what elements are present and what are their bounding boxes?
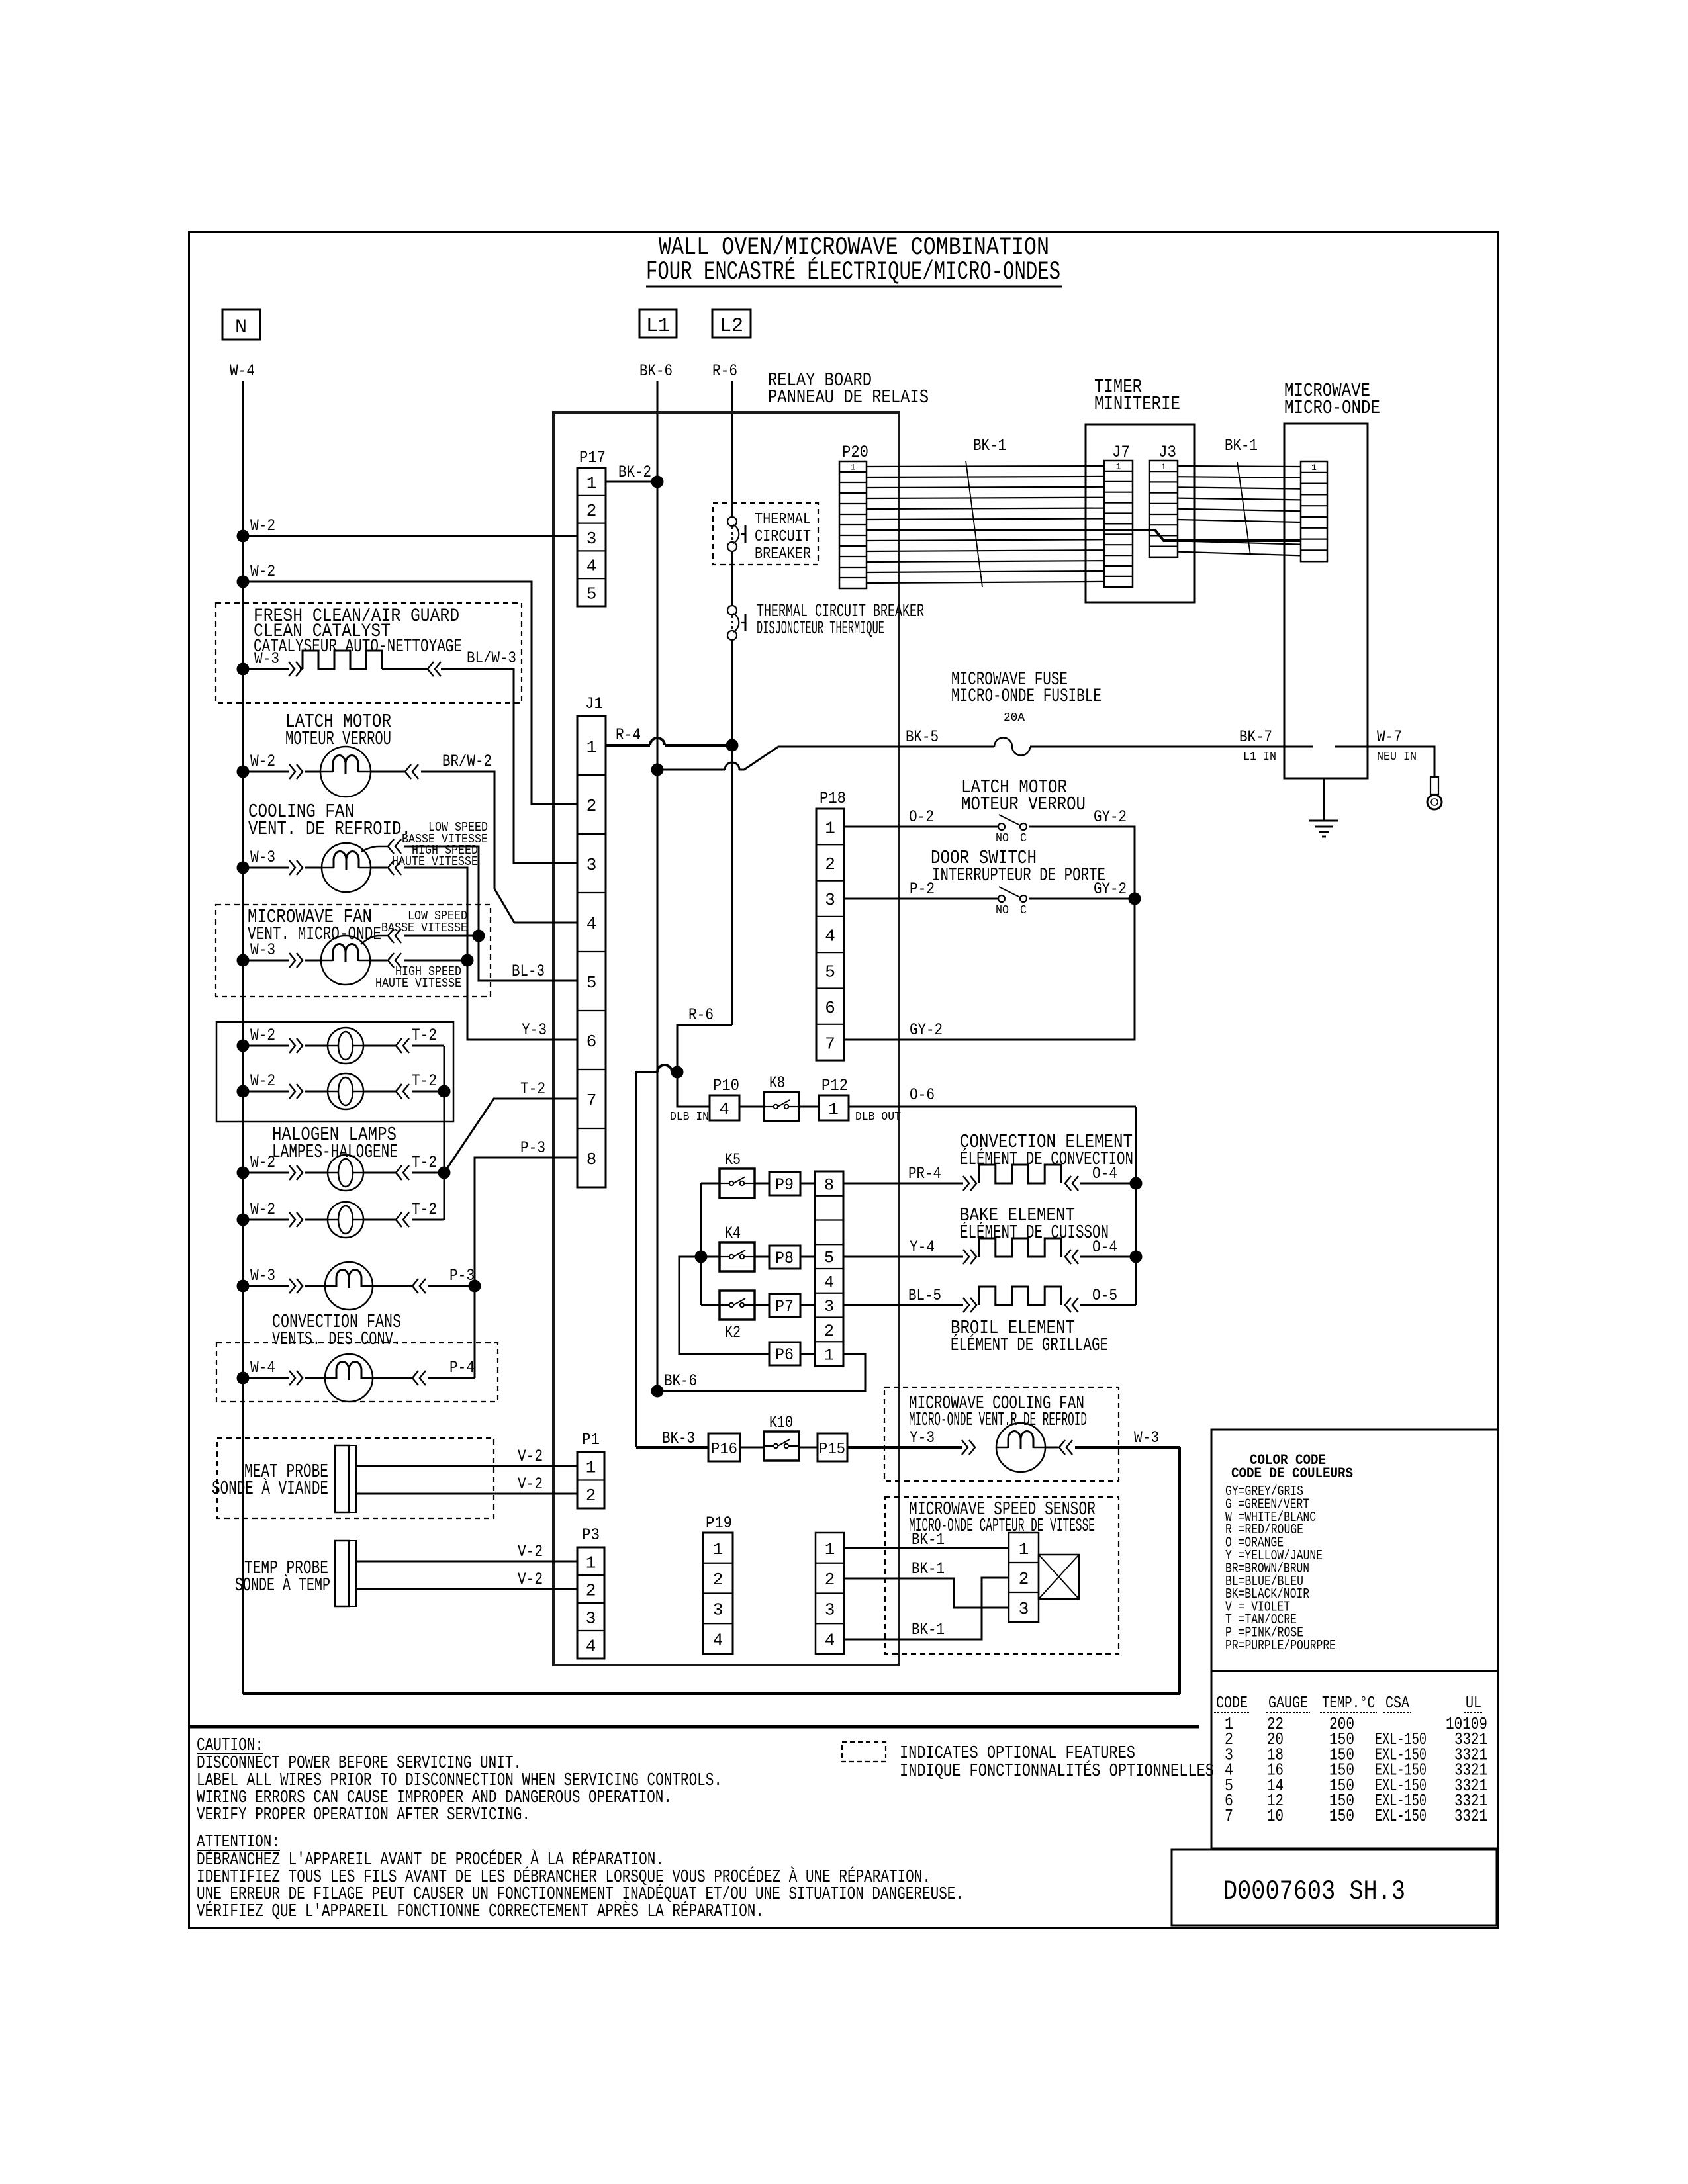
svg-text:D0007603 SH.3: D0007603 SH.3: [1223, 1876, 1405, 1907]
temp probe element: [335, 1541, 349, 1606]
wire O-6 from P12 to element bus: [849, 1106, 1136, 1108]
wire GY-2 from latch switch: [844, 827, 1135, 1040]
junction GY-2 at door switch: [1129, 893, 1141, 905]
svg-text:10: 10: [1267, 1806, 1284, 1826]
svg-text:T-2: T-2: [412, 1200, 437, 1219]
svg-text:K8: K8: [769, 1073, 785, 1093]
svg-text:GY-2: GY-2: [1094, 880, 1127, 899]
wires V-2 temp probe to P3: [356, 1561, 577, 1563]
node L2 terminal box: [712, 310, 751, 338]
svg-text:MOTEUR VERROU: MOTEUR VERROU: [285, 728, 391, 750]
svg-text:NO: NO: [996, 832, 1009, 845]
halogen lamp 1: [328, 1028, 363, 1064]
wire W-4 neutral bus vertical: [242, 381, 244, 1694]
label MICROWAVE COOLING FAN / MICRO-ONDE VENT.R DE REFROID: [884, 1387, 1119, 1481]
svg-text:1: 1: [825, 1539, 835, 1559]
svg-text:C: C: [1020, 904, 1027, 917]
halogen lamp L3 wire W-2: [237, 1167, 250, 1179]
svg-text:P15: P15: [819, 1441, 845, 1459]
wire gauge table box: [1211, 1671, 1498, 1848]
svg-text:MICRO-ONDE: MICRO-ONDE: [1284, 397, 1380, 419]
svg-text:2: 2: [825, 854, 835, 874]
svg-text:MINITERIE: MINITERIE: [1094, 393, 1180, 415]
svg-text:BL-3: BL-3: [512, 962, 545, 981]
svg-text:W-4: W-4: [230, 361, 255, 381]
svg-text:CODE: CODE: [1216, 1693, 1248, 1713]
svg-text:6: 6: [586, 1032, 597, 1052]
svg-text:P18: P18: [820, 789, 846, 808]
svg-text:CAUTION:: CAUTION:: [197, 1736, 263, 1756]
svg-text:O-5: O-5: [1092, 1286, 1117, 1305]
door switch NO/C: [998, 895, 1005, 902]
svg-text:DISJONCTEUR THERMIQUE: DISJONCTEUR THERMIQUE: [757, 619, 884, 639]
wire harness BK-1 J3 to microwave (9 wires): [1178, 466, 1301, 467]
relay K4: [720, 1242, 755, 1271]
convection fan 2 wire W-4: [237, 1372, 250, 1385]
wire BK-1 sensor pin1: [844, 1547, 1009, 1549]
relay board output connector (4 pins): [816, 1533, 844, 1654]
wire neutral return bottom: [243, 1692, 1180, 1695]
wire P-3 bus to J1 pin8: [475, 1158, 577, 1378]
wire BR/W-2 to J1 pin4: [421, 772, 577, 923]
svg-text:4: 4: [825, 1630, 835, 1650]
wire BK-6 L1 bus vertical: [657, 381, 659, 1391]
ring terminal (chassis): [1430, 777, 1438, 794]
svg-text:5: 5: [586, 973, 597, 993]
svg-text:J1: J1: [585, 694, 603, 713]
svg-text:VERIFY PROPER OPERATION AFTER: VERIFY PROPER OPERATION AFTER SERVICING.: [197, 1805, 530, 1825]
wire BK-1 sensor pin3: [844, 1578, 1009, 1608]
relay coil feed bus K5/K4/K2: [700, 1183, 702, 1305]
svg-text:2: 2: [586, 796, 597, 816]
svg-text:VÉRIFIEZ QUE L'APPAREIL FONCTI: VÉRIFIEZ QUE L'APPAREIL FONCTIONNE CORRE…: [197, 1901, 764, 1922]
microwave cooling fan motor M6: [996, 1423, 1045, 1472]
svg-text:DLB OUT: DLB OUT: [855, 1111, 901, 1124]
svg-text:W-2: W-2: [250, 1153, 275, 1172]
svg-text:THERMAL: THERMAL: [755, 511, 811, 529]
halogen lamp 4: [328, 1202, 363, 1238]
svg-text:BK-2: BK-2: [618, 463, 651, 482]
svg-text:5: 5: [824, 1249, 834, 1268]
svg-text:CSA: CSA: [1385, 1693, 1409, 1713]
svg-text:PANNEAU DE RELAIS: PANNEAU DE RELAIS: [768, 387, 929, 408]
svg-text:W-2: W-2: [250, 562, 275, 581]
connector P6: [769, 1342, 800, 1365]
svg-text:R-6: R-6: [688, 1005, 714, 1024]
microwave internal L1 IN / NEU IN stubs: [1284, 746, 1313, 748]
speed sensor element X box: [1039, 1555, 1079, 1599]
svg-text:3: 3: [586, 529, 597, 549]
connector P8: [769, 1246, 800, 1269]
svg-text:1: 1: [1161, 462, 1166, 472]
connector P9: [769, 1172, 800, 1195]
svg-text:T-2: T-2: [412, 1153, 437, 1172]
svg-text:1: 1: [825, 819, 835, 839]
svg-text:2: 2: [586, 501, 597, 521]
halogen lamp L4 wire W-2: [237, 1214, 250, 1226]
wire R-6 elbow down to DLB feed: [677, 1025, 732, 1072]
timer box: [1086, 424, 1194, 602]
junction high speed bus: [461, 954, 474, 967]
svg-text:BK-6: BK-6: [639, 361, 673, 381]
svg-text:P9: P9: [775, 1175, 794, 1195]
svg-text:7: 7: [1225, 1806, 1233, 1826]
svg-text:K10: K10: [769, 1413, 793, 1432]
svg-text:R-4: R-4: [616, 725, 641, 745]
svg-text:150: 150: [1329, 1806, 1354, 1826]
wire BK-7 fuse to microwave L1 IN: [1030, 746, 1284, 748]
svg-text:P17: P17: [579, 448, 606, 467]
microwave fuse 20A symbol: [994, 738, 1030, 756]
wire DLB IN feed: [677, 1072, 710, 1107]
wire Y-3 to J1 pin6: [467, 960, 577, 1040]
svg-text:W-2: W-2: [250, 1026, 275, 1045]
svg-text:P19: P19: [706, 1514, 732, 1533]
wire BL/W-3 to J1 pin3: [441, 669, 577, 863]
svg-text:W-2: W-2: [250, 752, 275, 771]
junction R-6 / DLB feed: [671, 1066, 684, 1079]
svg-text:P3: P3: [582, 1525, 600, 1545]
svg-text:O-2: O-2: [909, 807, 934, 827]
wire neutral return right leg: [1178, 1447, 1181, 1694]
wire BK-2 from P17 pin1 to BK-6: [606, 481, 657, 483]
svg-text:GY-2: GY-2: [1094, 807, 1127, 827]
svg-text:1: 1: [586, 473, 597, 493]
svg-text:BK-1: BK-1: [912, 1530, 945, 1549]
svg-text:ÉLÉMENT DE GRILLAGE: ÉLÉMENT DE GRILLAGE: [951, 1334, 1108, 1356]
svg-text:MICRO-ONDE VENT.R DE REFROID: MICRO-ONDE VENT.R DE REFROID: [909, 1409, 1087, 1431]
svg-text:MOTEUR VERROU: MOTEUR VERROU: [961, 794, 1086, 815]
svg-text:GAUGE: GAUGE: [1268, 1693, 1308, 1713]
svg-text:CIRCUIT: CIRCUIT: [755, 528, 811, 546]
svg-text:4: 4: [713, 1630, 724, 1650]
svg-text:J7: J7: [1112, 443, 1130, 462]
svg-text:BK-7: BK-7: [1239, 727, 1272, 747]
svg-text:2: 2: [586, 1486, 596, 1506]
svg-text:LAMPES-HALOGENE: LAMPES-HALOGENE: [272, 1141, 398, 1163]
svg-text:2: 2: [586, 1580, 596, 1600]
junction low speed bus: [473, 930, 485, 942]
svg-text:1: 1: [586, 1458, 596, 1478]
thermal circuit breaker CB1 symbol: [727, 517, 737, 526]
svg-text:BK-1: BK-1: [1225, 436, 1258, 455]
border frame of schematic sheet: [189, 232, 1498, 1929]
svg-text:W-2: W-2: [250, 1200, 275, 1219]
svg-text:C: C: [1020, 832, 1027, 845]
wire + junction to clean catalyst element: [237, 663, 250, 676]
svg-text:3: 3: [825, 890, 835, 910]
latch motor switch NO/C: [998, 823, 1005, 830]
svg-text:NO: NO: [996, 904, 1009, 917]
microwave box: [1284, 424, 1368, 778]
svg-text:P6: P6: [775, 1345, 794, 1365]
svg-text:BK-6: BK-6: [664, 1371, 697, 1390]
svg-text:6: 6: [825, 998, 835, 1018]
wire Y-4 to bake element: [843, 1256, 963, 1258]
svg-text:VENT. DE REFROID.: VENT. DE REFROID.: [248, 818, 411, 840]
svg-text:BK-1: BK-1: [912, 1559, 945, 1578]
svg-text:L1 IN: L1 IN: [1243, 751, 1276, 764]
convection fan motor M4: [325, 1262, 373, 1310]
svg-text:ÉLÉMENT DE CUISSON: ÉLÉMENT DE CUISSON: [960, 1221, 1109, 1244]
svg-text:FOUR ENCASTRÉ ÉLECTRIQUE/MICRO: FOUR ENCASTRÉ ÉLECTRIQUE/MICRO-ONDES: [646, 257, 1060, 287]
svg-text:DLB IN: DLB IN: [670, 1111, 709, 1124]
svg-text:INTERRUPTEUR DE PORTE: INTERRUPTEUR DE PORTE: [932, 864, 1105, 886]
ground symbol under microwave: [1323, 778, 1325, 821]
svg-text:1: 1: [1019, 1539, 1029, 1559]
svg-text:T-2: T-2: [412, 1026, 437, 1045]
svg-text:4: 4: [586, 914, 597, 934]
wire PR-4 to convection element: [843, 1183, 963, 1185]
wire W-2 from neutral bus to J1 pin2: [237, 576, 250, 588]
svg-text:PR=PURPLE/POURPRE: PR=PURPLE/POURPRE: [1225, 1639, 1336, 1654]
svg-text:Y-4: Y-4: [910, 1238, 935, 1257]
svg-text:BK-1: BK-1: [973, 436, 1006, 455]
svg-text:BL-5: BL-5: [908, 1286, 941, 1305]
wires V-2 meat probe to P1: [356, 1465, 577, 1467]
svg-text:P20: P20: [842, 443, 868, 462]
latch motor wire W-2: [237, 766, 250, 778]
svg-text:SONDE À VIANDE: SONDE À VIANDE: [212, 1477, 328, 1500]
svg-text:BL/W-3: BL/W-3: [467, 649, 516, 668]
wire T-2 lamp bus: [444, 1046, 445, 1220]
svg-text:O-6: O-6: [910, 1085, 935, 1105]
wire BL-3 to J1 pin5: [479, 936, 577, 981]
wire W-3 from cooling fan to neutral return: [1045, 1447, 1058, 1449]
svg-text:3: 3: [824, 1297, 834, 1316]
svg-text:BASSE VITESSE: BASSE VITESSE: [381, 921, 467, 935]
microwave fan optional dashed box: [216, 905, 491, 997]
caution separator rule: [189, 1725, 1199, 1729]
wire BK-6 to element header pin1: [657, 1354, 865, 1391]
svg-text:W-3: W-3: [1134, 1428, 1159, 1447]
wire relay bus to P6: [679, 1257, 769, 1354]
svg-text:BREAKER: BREAKER: [755, 545, 811, 563]
svg-text:NEU IN: NEU IN: [1377, 751, 1417, 764]
svg-text:4: 4: [719, 1099, 729, 1119]
svg-text:1: 1: [586, 737, 597, 757]
svg-text:CODE DE COULEURS: CODE DE COULEURS: [1231, 1465, 1353, 1482]
wire BL-5 to broil element: [843, 1304, 963, 1306]
junction P-3 bus at fan1: [469, 1280, 481, 1293]
wire P-2 from P18 pin3 to door switch: [844, 898, 998, 900]
svg-text:INDICATES OPTIONAL FEATURES: INDICATES OPTIONAL FEATURES: [900, 1744, 1135, 1764]
svg-text:4: 4: [825, 926, 835, 946]
convection fan 1 wire W-3: [237, 1280, 250, 1293]
svg-text:K5: K5: [725, 1150, 741, 1169]
microwave speed sensor dashed box: [885, 1497, 1119, 1654]
node N terminal box: [222, 310, 260, 340]
svg-text:3: 3: [713, 1600, 724, 1620]
halogen lamp L1 wire W-2: [237, 1040, 250, 1052]
node L1 terminal box: [639, 310, 677, 338]
relay K5: [720, 1169, 755, 1198]
color code legend box: [1211, 1430, 1498, 1671]
svg-text:P-2: P-2: [910, 880, 935, 899]
svg-text:5: 5: [825, 962, 835, 982]
wire BK-5 from BK-6 to microwave (with crossover hump and diagonal): [651, 764, 664, 776]
svg-text:MICRO-ONDE FUSIBLE: MICRO-ONDE FUSIBLE: [951, 686, 1102, 707]
svg-text:W-2: W-2: [250, 1071, 275, 1091]
latch motor M1: [320, 747, 371, 797]
svg-text:T-2: T-2: [412, 1071, 437, 1091]
svg-text:BK-5: BK-5: [906, 727, 939, 747]
svg-text:INDIQUE FONCTIONNALITÉS OPTION: INDIQUE FONCTIONNALITÉS OPTIONNELLES: [900, 1760, 1214, 1782]
svg-text:2: 2: [824, 1322, 834, 1341]
cooling fan motor M2: [322, 843, 371, 892]
svg-text:P1: P1: [582, 1430, 600, 1449]
thermal circuit breaker CB2 symbol: [727, 606, 737, 615]
wire T-2 to J1 pin7: [444, 1099, 577, 1173]
connector P16: [708, 1433, 740, 1461]
relay K8: [764, 1092, 799, 1121]
svg-text:R-6: R-6: [712, 361, 737, 381]
svg-text:3: 3: [586, 855, 597, 875]
svg-text:Y-3: Y-3: [910, 1428, 935, 1447]
svg-text:O-4: O-4: [1092, 1238, 1117, 1257]
svg-text:2: 2: [825, 1570, 835, 1590]
svg-text:3321: 3321: [1454, 1806, 1487, 1826]
bake heater element: [979, 1238, 1061, 1257]
svg-text:2: 2: [713, 1570, 724, 1590]
svg-text:N: N: [235, 316, 247, 339]
svg-text:4: 4: [586, 557, 597, 576]
connector P7: [769, 1294, 800, 1317]
relay K10: [764, 1432, 799, 1461]
wire Y-3 to microwave cooling fan: [847, 1446, 962, 1449]
svg-text:T-2: T-2: [520, 1079, 545, 1099]
svg-text:W-7: W-7: [1377, 727, 1402, 747]
svg-text:V-2: V-2: [518, 1447, 543, 1466]
svg-text:W-3: W-3: [254, 649, 279, 668]
svg-text:20A: 20A: [1004, 711, 1025, 725]
svg-text:1: 1: [713, 1539, 724, 1559]
svg-text:P8: P8: [775, 1249, 794, 1268]
svg-text:8: 8: [586, 1150, 597, 1169]
svg-text:O-4: O-4: [1092, 1164, 1117, 1183]
svg-text:P12: P12: [821, 1076, 848, 1095]
svg-text:L2: L2: [720, 315, 743, 338]
convection fan 2 optional dashed box: [216, 1343, 498, 1402]
optional features legend: [842, 1742, 886, 1762]
svg-text:J3: J3: [1158, 443, 1176, 462]
svg-text:W-3: W-3: [250, 1266, 275, 1285]
relay K2: [720, 1291, 755, 1320]
convection fan motor M5: [325, 1354, 373, 1402]
convection heater element: [979, 1165, 1061, 1183]
svg-text:1: 1: [828, 1099, 839, 1119]
svg-text:VENTS. DES CONV.: VENTS. DES CONV.: [272, 1328, 401, 1350]
svg-text:K2: K2: [725, 1323, 741, 1342]
svg-text:V-2: V-2: [518, 1542, 543, 1561]
microwave fan motor M3: [321, 936, 370, 985]
junction on BK-6 at BK-2: [651, 476, 664, 488]
svg-text:8: 8: [824, 1175, 834, 1195]
element pin header (cells 8..1): [815, 1171, 843, 1366]
svg-text:2: 2: [1019, 1569, 1029, 1589]
microwave fan low speed wire: [361, 936, 387, 944]
svg-text:V-2: V-2: [518, 1475, 543, 1494]
wire O-2 from P18 pin1 to latch switch: [844, 826, 998, 828]
svg-text:HAUTE VITESSE: HAUTE VITESSE: [375, 976, 461, 991]
svg-text:SONDE À TEMP: SONDE À TEMP: [235, 1574, 330, 1596]
wire harness BK-1 P20 to J7 (12 wires): [867, 466, 1104, 467]
svg-text:3: 3: [586, 1608, 596, 1628]
svg-text:7: 7: [586, 1091, 597, 1111]
svg-text:1: 1: [824, 1346, 834, 1365]
fresh clean / air guard optional feature dashed box: [216, 603, 522, 703]
halogen lamp 2: [328, 1073, 363, 1109]
microwave fan high speed wire: [370, 960, 387, 962]
svg-text:1: 1: [851, 463, 856, 473]
svg-text:7: 7: [825, 1034, 835, 1054]
thermal circuit breaker CB1 optional dashed box: [713, 503, 818, 565]
resistor element clean catalyst: [303, 651, 382, 669]
halogen lamps box (pair 1): [216, 1022, 453, 1122]
svg-text:P-3: P-3: [520, 1138, 545, 1158]
meat probe optional dashed box: [217, 1438, 494, 1518]
svg-text:TEMP.°C: TEMP.°C: [1322, 1693, 1375, 1713]
svg-text:W-2: W-2: [250, 516, 275, 535]
svg-text:3: 3: [825, 1600, 835, 1620]
meat probe element: [335, 1445, 349, 1512]
svg-text:GY-2: GY-2: [910, 1021, 943, 1040]
svg-text:ATTENTION:: ATTENTION:: [197, 1833, 280, 1852]
halogen lamp 3: [328, 1155, 363, 1191]
wire W-2 from neutral bus to P17 pin3: [237, 530, 250, 543]
svg-text:CATALYSEUR AUTO-NETTOYAGE: CATALYSEUR AUTO-NETTOYAGE: [254, 637, 462, 657]
svg-text:5: 5: [586, 584, 597, 604]
svg-text:P10: P10: [713, 1076, 739, 1095]
wire R-6 L2 vertical: [731, 381, 733, 517]
speed sensor connector (3 pins): [1009, 1533, 1039, 1622]
svg-text:P-4: P-4: [449, 1358, 475, 1377]
wire W-7 to ring terminal: [1368, 747, 1434, 777]
svg-text:1: 1: [586, 1553, 596, 1572]
svg-text:3: 3: [1019, 1599, 1029, 1619]
svg-text:K4: K4: [725, 1224, 741, 1243]
microwave connector (9 pins): [1301, 461, 1327, 561]
microwave fan wire W-3: [237, 954, 250, 967]
svg-text:P7: P7: [775, 1297, 794, 1316]
svg-text:BK-3: BK-3: [662, 1429, 695, 1448]
wire to BK-3 leg (hump over BK-6): [672, 1071, 677, 1073]
svg-text:W-3: W-3: [250, 940, 275, 960]
wire P20 pin7 heavy wire through timer to microwave: [867, 530, 1301, 541]
svg-text:W-4: W-4: [250, 1358, 275, 1377]
cooling fan low speed wire to BL-3 bus: [361, 846, 387, 852]
svg-text:1: 1: [1311, 463, 1317, 473]
svg-text:PR-4: PR-4: [908, 1164, 941, 1183]
svg-text:EXL-150: EXL-150: [1375, 1806, 1427, 1826]
halogen lamp L2 wire W-2: [237, 1085, 250, 1098]
svg-text:BR/W-2: BR/W-2: [442, 752, 492, 771]
broil heater element: [979, 1287, 1061, 1305]
svg-text:L1: L1: [646, 315, 670, 338]
svg-text:1: 1: [1116, 462, 1121, 472]
svg-text:W-3: W-3: [250, 848, 275, 867]
svg-text:UL: UL: [1466, 1693, 1481, 1713]
svg-text:P16: P16: [711, 1441, 737, 1459]
connector P15: [818, 1433, 847, 1461]
wire BK-1 sensor pin2: [844, 1578, 1009, 1639]
cooling fan wire W-3: [237, 862, 250, 874]
wire O-4/O-5 element bus vertical: [1135, 1107, 1137, 1305]
svg-text:BK-1: BK-1: [912, 1620, 945, 1639]
relay board outline: [553, 412, 899, 1665]
svg-text:4: 4: [586, 1636, 596, 1656]
svg-text:V-2: V-2: [518, 1570, 543, 1589]
